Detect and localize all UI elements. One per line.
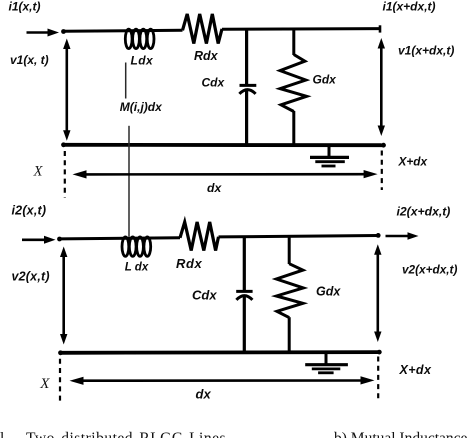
mutual inductance M(i,j)dx link line (lower segment) bbox=[128, 126, 130, 237]
svg-text:X+dx: X+dx bbox=[399, 363, 432, 377]
junction dot: line1 top-left node bbox=[61, 29, 66, 34]
svg-text:dx: dx bbox=[207, 181, 222, 195]
wire: line1 top, right segment bbox=[222, 27, 380, 31]
svg-text:Rdx: Rdx bbox=[194, 49, 219, 63]
junction dot: line2 top-left node bbox=[57, 237, 62, 242]
conductance G2 (Gdx) top lead bbox=[288, 236, 291, 264]
wire: line2 top, left segment (under inductor) bbox=[60, 238, 181, 239]
dashed reference line at X+dx (line2) bbox=[377, 357, 379, 401]
junction dot: line2 top-right node bbox=[376, 233, 381, 238]
dimension arrow dx (line1) bbox=[73, 170, 378, 179]
svg-text:dx: dx bbox=[196, 387, 212, 402]
conductance G1 bottom lead bbox=[292, 111, 295, 146]
dashed reference line at X (line2) bbox=[59, 359, 61, 404]
svg-text:v1(x+dx,t): v1(x+dx,t) bbox=[398, 44, 454, 58]
svg-text:X: X bbox=[39, 376, 50, 392]
capacitor C1 (Cdx) top lead bbox=[245, 29, 248, 85]
dashed reference line at X+dx (line1) bbox=[381, 151, 383, 191]
dashed reference line at X (line1) bbox=[64, 151, 66, 198]
svg-text:M(i,j)dx: M(i,j)dx bbox=[120, 100, 163, 114]
inductor L1 (Ldx) coil bbox=[125, 29, 154, 48]
junction dot: line1 bottom-left node bbox=[61, 142, 66, 147]
capacitor C2 top plate bbox=[236, 290, 252, 293]
svg-text:L dx: L dx bbox=[125, 261, 149, 273]
junction dot: line1 bottom-right node bbox=[381, 143, 386, 148]
conductance G1 zigzag bbox=[280, 55, 307, 112]
svg-text:v2(x+dx,t): v2(x+dx,t) bbox=[402, 262, 457, 276]
inductor L2 (Ldx) coil bbox=[122, 237, 151, 256]
svg-text:X: X bbox=[33, 164, 44, 180]
svg-text:Cdx: Cdx bbox=[192, 287, 217, 302]
svg-text:Gdx: Gdx bbox=[313, 73, 338, 87]
resistor R1 (Rdx) zigzag bbox=[183, 14, 223, 44]
capacitor C1 bottom lead bbox=[245, 91, 248, 146]
dimension arrow dx (line2) bbox=[70, 376, 375, 385]
svg-text:i1(x,t): i1(x,t) bbox=[9, 0, 41, 14]
svg-text:v2(x,t): v2(x,t) bbox=[12, 269, 50, 283]
current arrow i2 input bbox=[22, 236, 56, 244]
svg-text:b) Mutual Inductance: b) Mutual Inductance bbox=[334, 430, 468, 438]
voltage arrow v2(x,t) double-headed bbox=[60, 247, 67, 345]
resistor R2 (Rdx) zigzag bbox=[180, 222, 219, 251]
junction dot: line2 bottom-right node bbox=[377, 350, 382, 355]
wire: line1 bottom (return) bbox=[64, 143, 384, 147]
capacitor C2 curved plate bbox=[236, 296, 252, 300]
wire: line2 bottom (return) bbox=[61, 350, 380, 354]
voltage arrow v1(x,t) double-headed bbox=[63, 39, 70, 141]
conductance G1 (Gdx) top lead bbox=[292, 29, 295, 55]
junction dot: line2 bottom-left node bbox=[58, 350, 63, 355]
svg-text:i1(x+dx,t): i1(x+dx,t) bbox=[383, 0, 436, 13]
svg-text:v1(x, t): v1(x, t) bbox=[10, 53, 49, 67]
current arrow i1 input bbox=[27, 29, 60, 37]
svg-text:Rdx: Rdx bbox=[176, 256, 203, 271]
svg-text:X+dx: X+dx bbox=[398, 154, 428, 168]
wire: line1 top, left segment (under inductor) bbox=[64, 30, 183, 31]
ground symbol (line2) bbox=[305, 352, 348, 372]
svg-text:l.: l. bbox=[0, 430, 8, 438]
conductance G2 bottom lead bbox=[288, 317, 291, 353]
current arrow i2 output bbox=[386, 232, 419, 240]
svg-text:Two distributed RLGC Lines: Two distributed RLGC Lines bbox=[26, 430, 226, 438]
svg-text:i2(x+dx,t): i2(x+dx,t) bbox=[397, 204, 451, 218]
capacitor C1 curved plate bbox=[239, 90, 255, 94]
capacitor C2 bottom lead bbox=[243, 297, 246, 353]
conductance G2 zigzag bbox=[276, 264, 303, 318]
svg-text:Gdx: Gdx bbox=[316, 285, 341, 299]
voltage arrow v1(x+dx,t) double-headed bbox=[378, 38, 385, 136]
voltage arrow v2(x+dx,t) double-headed bbox=[374, 244, 381, 342]
svg-text:Ldx: Ldx bbox=[131, 53, 154, 67]
mutual inductance M(i,j)dx link line (upper segment) bbox=[125, 63, 127, 99]
ground symbol (line1) bbox=[310, 145, 349, 166]
capacitor C1 top plate bbox=[240, 84, 257, 87]
wire end tick: line1 top-right terminal bbox=[379, 25, 382, 32]
capacitor C2 (Cdx) top lead bbox=[243, 237, 246, 291]
svg-text:Cdx: Cdx bbox=[202, 76, 226, 90]
wire: line2 top, right segment bbox=[219, 236, 379, 237]
svg-text:i2(x,t): i2(x,t) bbox=[12, 204, 47, 218]
